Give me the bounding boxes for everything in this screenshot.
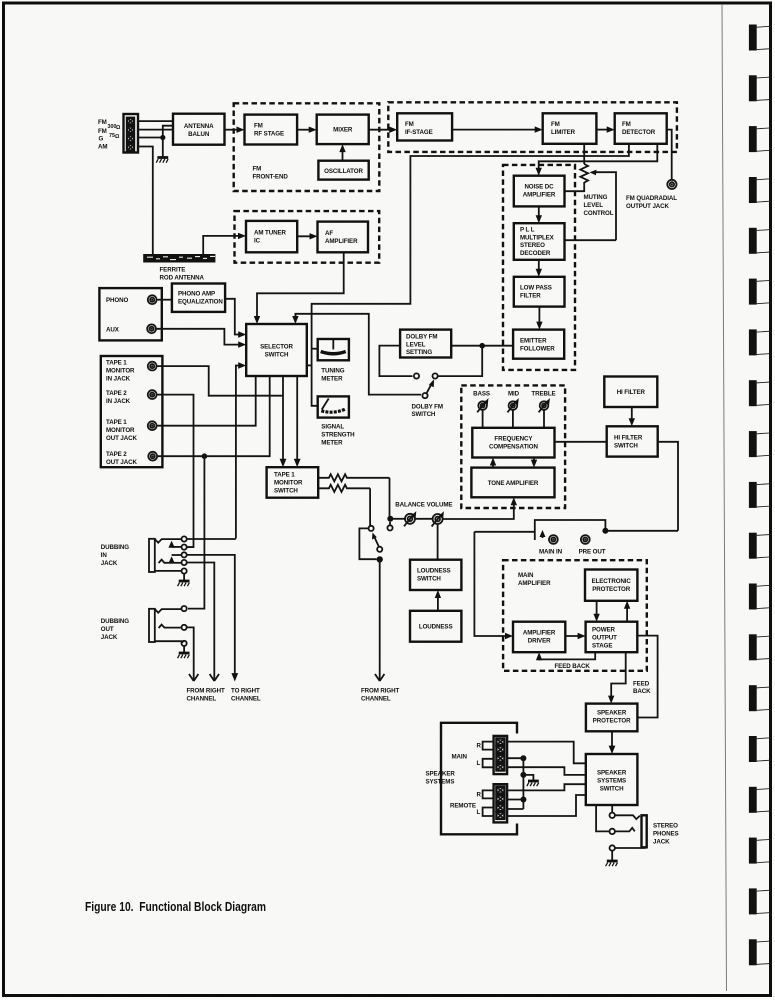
binding hole 14 (749, 685, 771, 711)
junction dot balance feed (387, 516, 393, 522)
svg-text:IN JACK: IN JACK (106, 376, 131, 383)
wire volume to tone amplifier with arrow (443, 497, 517, 519)
wire speaker protector to speaker systems switch with arrow (609, 731, 616, 754)
wire dubbing out line to right channel (187, 555, 235, 674)
resistor R upper (318, 474, 389, 481)
phones ring spring (615, 828, 635, 832)
svg-text:FRONT-END: FRONT-END (253, 174, 289, 181)
loudness switch box (410, 560, 461, 590)
wire emitter follower output to dolby level setting (451, 345, 513, 347)
wire amplifier driver to power output with arrow (565, 633, 585, 639)
svg-text:SWITCH: SWITCH (600, 786, 624, 793)
tape jacks box (101, 356, 163, 467)
svg-text:MAIN: MAIN (452, 754, 468, 761)
svg-text:AMPLIFIER: AMPLIFIER (523, 192, 556, 199)
wire loudness to loudness switch with arrow (435, 590, 441, 611)
dubbing in tip contact spring (155, 539, 182, 543)
svg-text:DUBBING: DUBBING (101, 544, 129, 551)
svg-text:DRIVER: DRIVER (528, 638, 551, 645)
monitor switch contact A (369, 526, 374, 531)
selector switch box (246, 324, 307, 376)
arrow freq comp to tone amp (531, 458, 537, 468)
wire AM tuner IC to AF amplifier with arrow (297, 233, 317, 239)
binding hole 17 (749, 838, 771, 864)
dolby switch lever with arrow (427, 379, 434, 393)
svg-text:TUNING: TUNING (321, 368, 344, 375)
svg-text:STAGE: STAGE (592, 642, 612, 649)
dubbing out sleeve wire (155, 641, 184, 642)
fork from right channel (dubbing ring) (210, 674, 219, 681)
svg-text:MULTIPLEX: MULTIPLEX (520, 234, 555, 241)
svg-text:PHONES: PHONES (653, 831, 679, 838)
main speaker terminal strip (494, 736, 508, 774)
svg-text:DUBBING: DUBBING (101, 618, 129, 625)
tape 1 monitor switch box (267, 467, 319, 498)
svg-text:OUT JACK: OUT JACK (106, 435, 137, 442)
svg-text:TAPE 2: TAPE 2 (106, 451, 127, 458)
wire dubbing tip to vertical (187, 538, 236, 540)
svg-text:L: L (477, 809, 481, 816)
arrow tone amp to freq comp (490, 458, 496, 468)
dubbing out jack body (149, 609, 155, 642)
wire detector bottom to tuning meter line (312, 144, 629, 406)
svg-text:LOUDNESS: LOUDNESS (417, 568, 451, 575)
svg-text:REMOTE: REMOTE (450, 803, 476, 810)
svg-text:COMPENSATION: COMPENSATION (489, 444, 539, 451)
svg-text:SWITCH: SWITCH (412, 411, 436, 418)
oscillator box (318, 161, 368, 180)
hi filter box (604, 377, 657, 408)
svg-text:AMPLIFIER: AMPLIFIER (523, 630, 556, 637)
wire tone output line (474, 531, 534, 533)
remote R bracket (477, 790, 494, 798)
svg-text:LOW PASS: LOW PASS (520, 285, 552, 292)
svg-text:PROTECTOR: PROTECTOR (592, 586, 630, 593)
svg-text:SELECTOR: SELECTOR (260, 344, 293, 351)
phono amp equalization box (172, 284, 225, 312)
binding hole 2 (749, 75, 771, 101)
svg-text:CONTROL: CONTROL (584, 210, 614, 217)
svg-text:FM: FM (98, 119, 107, 126)
wire dubbing ring from right channel (187, 563, 214, 682)
tone control dashed enclosure (461, 385, 565, 508)
binding hole 10 (749, 482, 771, 508)
svg-text:FM: FM (405, 121, 414, 128)
dubbing out ground wire (183, 646, 185, 652)
main R bracket (477, 742, 494, 750)
svg-text:SIGNAL: SIGNAL (321, 424, 344, 431)
svg-text:G: G (99, 136, 104, 143)
muting level control potentiometer resistor (580, 164, 588, 185)
wire PLL to low pass filter with arrow (536, 260, 542, 277)
wire electronic protector to power output with arrow (593, 601, 599, 622)
svg-text:LEVEL: LEVEL (584, 202, 604, 209)
label TUNING METER (321, 368, 344, 383)
remote L bracket (477, 808, 494, 817)
wire junction to balance pot (390, 518, 405, 520)
dubbing in contacts (182, 536, 187, 573)
FM quadradial output jack (667, 180, 676, 189)
svg-text:EQUALIZATION: EQUALIZATION (178, 299, 223, 306)
svg-text:OSCILLATOR: OSCILLATOR (324, 168, 363, 175)
tape2 in jack (148, 390, 157, 399)
svg-text:LOUDNESS: LOUDNESS (419, 624, 453, 631)
ferrite rod antenna bar (143, 254, 215, 263)
svg-text:BACK: BACK (633, 688, 651, 695)
svg-text:IN: IN (101, 552, 108, 559)
antenna balun U (173, 114, 225, 145)
svg-text:TAPE 1: TAPE 1 (106, 360, 127, 367)
binding hole 1 (749, 25, 771, 51)
svg-text:MAIN: MAIN (518, 572, 534, 579)
label STEREO PHONES JACK (653, 823, 679, 846)
wire noise amp to PLL with arrow (536, 206, 542, 223)
wire balun return (163, 126, 173, 138)
wire selector to tape monitor switch arrow 2 (294, 376, 301, 467)
wire dolby output to switch contact (379, 346, 412, 377)
svg-text:AM TUNER: AM TUNER (254, 230, 286, 237)
ground tap elbow (523, 775, 533, 780)
svg-text:LEVEL: LEVEL (406, 341, 426, 348)
label BALANCE VOLUME (395, 502, 452, 509)
svg-text:MAIN IN: MAIN IN (539, 549, 563, 556)
emitter follower box (513, 330, 564, 359)
pot bottom wire to noise amp (565, 185, 585, 191)
svg-text:JACK: JACK (653, 839, 670, 846)
dubbing in ground wire (183, 574, 185, 581)
phono jack (148, 295, 157, 304)
signal strength meter box (318, 396, 349, 417)
svg-text:ELECTRONIC: ELECTRONIC (592, 578, 632, 585)
svg-text:FOLLOWER: FOLLOWER (520, 346, 555, 353)
dubbing in ring contact spring (159, 560, 166, 563)
wire pole down to from-right-channel (379, 559, 381, 681)
bass pot (477, 398, 488, 428)
svg-text:FM: FM (254, 123, 263, 130)
wire power output right to speaker protector feedback (637, 636, 657, 718)
junction dot tape2 out (202, 453, 208, 459)
svg-text:FEED: FEED (633, 681, 650, 688)
dolby switch pole (422, 393, 427, 398)
svg-text:R: R (477, 792, 482, 799)
wire main L to switch (507, 767, 586, 775)
wire junction down to dolby switch contact (437, 346, 482, 376)
svg-text:DECODER: DECODER (520, 250, 551, 257)
svg-text:OUTPUT JACK: OUTPUT JACK (626, 203, 670, 210)
monitor switch lever with arrow (372, 533, 379, 547)
junction dot remote bus (520, 797, 526, 803)
wire remote R- to bus (507, 799, 523, 801)
svg-text:STEREO: STEREO (520, 242, 545, 249)
svg-text:OUT: OUT (101, 626, 114, 633)
binding hole 18 (749, 888, 771, 914)
svg-text:FM: FM (622, 121, 631, 128)
svg-text:TAPE 1: TAPE 1 (106, 419, 127, 426)
svg-text:AMPLIFIER: AMPLIFIER (325, 238, 358, 245)
wire pre out line to hi filter drop (605, 530, 678, 532)
binding hole 12 (749, 584, 771, 610)
wire power output to electronic protector with arrow (624, 601, 630, 622)
wire switch to phones ring (596, 805, 609, 831)
wire upper resistor to balance junction (389, 478, 391, 519)
speaker protector box (586, 704, 638, 732)
main in jack (549, 535, 558, 544)
svg-text:AF: AF (325, 230, 333, 237)
svg-text:Ω: Ω (115, 134, 120, 140)
dubbing in ring break arrow (166, 555, 181, 563)
ground speaker common (527, 781, 539, 786)
wire lower resistor to switch contact (369, 488, 371, 525)
wire dubbing out ring to from-right-channel (187, 627, 194, 681)
FM IF stage box (397, 113, 452, 140)
stereo phones jack body (642, 815, 647, 847)
svg-text:METER: METER (321, 376, 343, 383)
label FERRITE ROD ANTENNA (160, 267, 205, 282)
wire G terminal to junction (138, 137, 163, 139)
svg-text:CHANNEL: CHANNEL (361, 696, 391, 703)
svg-text:FEED BACK: FEED BACK (555, 663, 591, 670)
loudness box (410, 611, 461, 642)
power output stage box (586, 622, 638, 653)
electronic protector box (585, 570, 637, 601)
speaker systems outline box (441, 723, 517, 835)
fork from right channel (volume) (375, 674, 384, 681)
wire AM terminal down to ferrite antenna (138, 147, 153, 255)
svg-text:FM: FM (98, 128, 107, 135)
wire stub into tuning meter (312, 348, 318, 350)
pot wiper arrow from PLL line (590, 170, 617, 241)
wire selector to tape monitor switch arrow 1 (280, 376, 287, 467)
svg-text:ANTENNA: ANTENNA (184, 123, 214, 130)
monitor switch pole dot (377, 556, 383, 562)
wire FM75 to balun (138, 129, 173, 131)
svg-text:OUT JACK: OUT JACK (106, 459, 137, 466)
remote speaker terminal strip (494, 784, 508, 822)
feedback wire power output to amplifier driver with arrow (536, 652, 595, 660)
svg-text:BALUN: BALUN (188, 131, 210, 138)
speaker systems switch box (586, 754, 638, 805)
dolby switch contact 2 (433, 373, 438, 378)
svg-text:METER: METER (321, 440, 343, 447)
phones tip contact (610, 813, 615, 818)
wire freq comp to hi filter switch (555, 441, 607, 443)
wire tape1 monitor in to selector bottom (157, 366, 283, 396)
wire tape2 out to selector bottom (158, 376, 270, 456)
svg-text:MIXER: MIXER (333, 127, 353, 134)
wire phono jack to phono amp (157, 299, 172, 301)
junction dot main L (520, 755, 526, 761)
wire aux jack to selector with arrow (156, 329, 246, 348)
svg-text:CHANNEL: CHANNEL (231, 696, 261, 703)
svg-text:JACK: JACK (101, 560, 118, 567)
wire limiter bottom to muting control pot (583, 144, 585, 164)
svg-text:TAPE 1: TAPE 1 (274, 472, 295, 479)
wire PLL decoder to wiper (565, 239, 617, 241)
main L bracket (477, 759, 494, 768)
svg-text:PHONO AMP: PHONO AMP (178, 291, 215, 298)
svg-text:NOISE DC: NOISE DC (524, 184, 554, 191)
wire ferrite antenna to AM tuner with arrow (203, 233, 246, 254)
wire mixer to FM IF stage with arrow (369, 127, 398, 133)
PLL multiplex stereo decoder box (514, 223, 565, 260)
dubbing in tip break arrow (168, 541, 181, 548)
svg-text:TONE AMPLIFIER: TONE AMPLIFIER (488, 480, 539, 487)
wire remote L to switch (507, 795, 586, 816)
page edge line (722, 4, 727, 991)
junction dot pre out line (602, 528, 608, 534)
svg-text:OUTPUT: OUTPUT (592, 634, 617, 641)
svg-text:SWITCH: SWITCH (274, 488, 298, 495)
wire junction down to dubbing out jack (188, 456, 204, 608)
svg-text:EMITTER: EMITTER (520, 338, 547, 345)
binding hole 9 (749, 431, 771, 457)
svg-text:BALANCE: BALANCE (395, 502, 425, 509)
binding hole 7 (749, 329, 771, 355)
binding hole 19 (749, 939, 771, 965)
binding hole 8 (749, 380, 771, 406)
FM RF stage box (245, 115, 298, 145)
dolby switch contact 1 (414, 373, 419, 378)
wire switch to phones tip (611, 805, 613, 812)
binding hole 11 (749, 533, 771, 559)
junction dot emitter output (479, 343, 485, 349)
svg-text:AUX: AUX (106, 327, 120, 334)
label DUBBING IN JACK (101, 544, 129, 567)
wire LPF to emitter follower with arrow (536, 307, 542, 330)
tone amplifier box (471, 468, 554, 498)
wire volume pot down to loudness switch (437, 524, 439, 560)
svg-text:FILTER: FILTER (520, 293, 541, 300)
svg-text:AM: AM (98, 144, 107, 151)
wire detector to quadradial jack (667, 130, 672, 180)
binding hole 16 (749, 787, 771, 813)
aux jack (147, 324, 156, 333)
label FROM RIGHT CHANNEL (volume) (361, 688, 400, 703)
ground (156, 158, 168, 163)
main in feed arrow (540, 530, 546, 538)
junction dot ground tap (520, 772, 526, 778)
mixer box (317, 115, 369, 145)
dubbing out tip spring (155, 609, 182, 613)
svg-text:Ω: Ω (116, 125, 121, 131)
svg-text:PRE OUT: PRE OUT (579, 549, 606, 556)
phono aux jack box (99, 288, 161, 340)
wire oscillator to mixer with arrow (339, 144, 345, 161)
wire main R+ to switch (507, 742, 586, 764)
wire junction to ground (162, 138, 164, 158)
MPX decoder dashed enclosure (503, 165, 575, 370)
svg-text:PROTECTOR: PROTECTOR (593, 718, 631, 725)
svg-text:DOLBY FM: DOLBY FM (406, 334, 437, 341)
wire hi filter switch to pre out line (658, 442, 678, 531)
binding hole 6 (749, 279, 771, 305)
low pass filter box (514, 277, 565, 307)
svg-text:MONITOR: MONITOR (274, 480, 303, 487)
svg-text:Figure 10. Functional Block D: Figure 10. Functional Block Diagram (85, 899, 266, 914)
svg-text:MONITOR: MONITOR (106, 368, 135, 375)
label FM FRONT-END (253, 166, 289, 181)
FM front-end dashed enclosure (234, 103, 380, 191)
binding hole 4 (749, 177, 771, 203)
phones ground wire (611, 851, 613, 860)
wire tape2 in down to dubbing contact (157, 395, 194, 547)
svg-text:HI FILTER: HI FILTER (617, 389, 646, 396)
dubbing out ring spring (159, 625, 182, 628)
svg-text:IF-STAGE: IF-STAGE (405, 129, 433, 136)
svg-text:STRENGTH: STRENGTH (321, 432, 355, 439)
AF amplifier box (318, 222, 369, 253)
svg-text:P L L: P L L (520, 227, 535, 234)
wire detector bottom to noise amp with arrow (536, 144, 658, 176)
svg-text:MID: MID (508, 391, 520, 398)
svg-text:SPEAKER: SPEAKER (597, 710, 627, 717)
label DOLBY FM SWITCH (412, 404, 443, 419)
tape2 out jack (148, 452, 157, 461)
svg-text:FROM RIGHT: FROM RIGHT (361, 688, 400, 695)
svg-text:MUTING: MUTING (584, 194, 608, 201)
svg-text:POWER: POWER (592, 626, 616, 633)
dubbing out contacts (182, 606, 187, 646)
FM detector box (615, 113, 667, 144)
resistor R lower (318, 485, 370, 492)
phones tip spring (615, 815, 640, 819)
dubbing in sleeve wire (155, 570, 182, 572)
noise DC amplifier box (514, 176, 565, 207)
wire IF stage to limiter with arrow (452, 126, 543, 132)
wire tape1 monitor out to selector bottom (157, 376, 256, 426)
svg-text:SWITCH: SWITCH (417, 576, 441, 583)
svg-text:SYSTEMS: SYSTEMS (597, 778, 626, 785)
svg-text:VOLUME: VOLUME (427, 502, 453, 509)
common ground bus vertical (522, 758, 524, 809)
svg-text:HI FILTER: HI FILTER (614, 435, 643, 442)
svg-text:R: R (477, 743, 482, 750)
svg-text:TAPE 2: TAPE 2 (106, 390, 127, 397)
wire balance to volume pot (415, 518, 433, 520)
wire power output to speaker protector with arrow (608, 652, 626, 703)
hi filter switch box (607, 426, 658, 456)
FM limiter box (543, 113, 597, 144)
wire phono amp to selector with arrow (225, 299, 246, 338)
svg-text:SPEAKER: SPEAKER (426, 771, 456, 778)
label FM QUADRADIAL OUTPUT JACK (626, 195, 677, 210)
label FROM RIGHT CHANNEL (dubbing) (187, 688, 226, 703)
monitor switch contact B (377, 547, 382, 552)
ground dubbing out (178, 653, 190, 658)
open contact below junction (387, 522, 392, 531)
phones ring contact (610, 829, 615, 834)
treble pot (539, 398, 550, 428)
svg-text:FERRITE: FERRITE (160, 267, 186, 274)
svg-text:SETTING: SETTING (406, 349, 432, 356)
svg-text:DETECTOR: DETECTOR (622, 129, 656, 136)
svg-text:FREQUENCY: FREQUENCY (494, 436, 533, 443)
pre out jack (581, 535, 590, 544)
label FM 75 ohm (98, 128, 120, 140)
svg-text:LIMITER: LIMITER (551, 129, 576, 136)
svg-text:IN JACK: IN JACK (106, 398, 131, 405)
label FEED BACK (outer) (633, 681, 651, 696)
ground phones (606, 861, 618, 866)
svg-text:BASS: BASS (473, 391, 490, 398)
wire balun to FM RF stage with arrow (225, 127, 245, 133)
svg-text:IC: IC (254, 238, 261, 245)
wire selector to signal meter (307, 364, 312, 366)
ground dubbing in (178, 581, 190, 586)
tape1 monitor out jack (148, 421, 157, 430)
svg-text:TREBLE: TREBLE (531, 391, 555, 398)
amplifier driver box (513, 622, 565, 653)
